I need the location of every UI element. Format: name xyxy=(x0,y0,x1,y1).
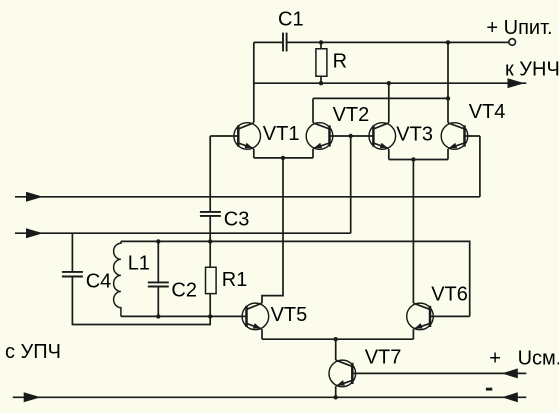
svg-text:R1: R1 xyxy=(222,269,248,291)
svg-text:VT7: VT7 xyxy=(365,346,402,368)
svg-text:VT1: VT1 xyxy=(263,123,300,145)
svg-text:+ Uпит.: + Uпит. xyxy=(486,17,552,39)
svg-text:L1: L1 xyxy=(128,253,150,275)
svg-text:C1: C1 xyxy=(278,8,304,30)
svg-text:с УПЧ: с УПЧ xyxy=(5,341,61,363)
svg-text:C4: C4 xyxy=(86,270,112,292)
svg-text:Uсм.: Uсм. xyxy=(518,347,559,369)
svg-text:C3: C3 xyxy=(224,209,250,231)
svg-text:C2: C2 xyxy=(171,279,197,301)
svg-text:R: R xyxy=(333,51,347,73)
svg-text:VT5: VT5 xyxy=(271,304,308,326)
svg-text:VT3: VT3 xyxy=(396,123,433,145)
svg-text:VT2: VT2 xyxy=(333,104,370,126)
svg-text:VT4: VT4 xyxy=(469,101,506,123)
svg-text:+: + xyxy=(489,347,501,369)
svg-text:к УНЧ: к УНЧ xyxy=(505,59,559,81)
svg-text:VT6: VT6 xyxy=(431,284,468,306)
